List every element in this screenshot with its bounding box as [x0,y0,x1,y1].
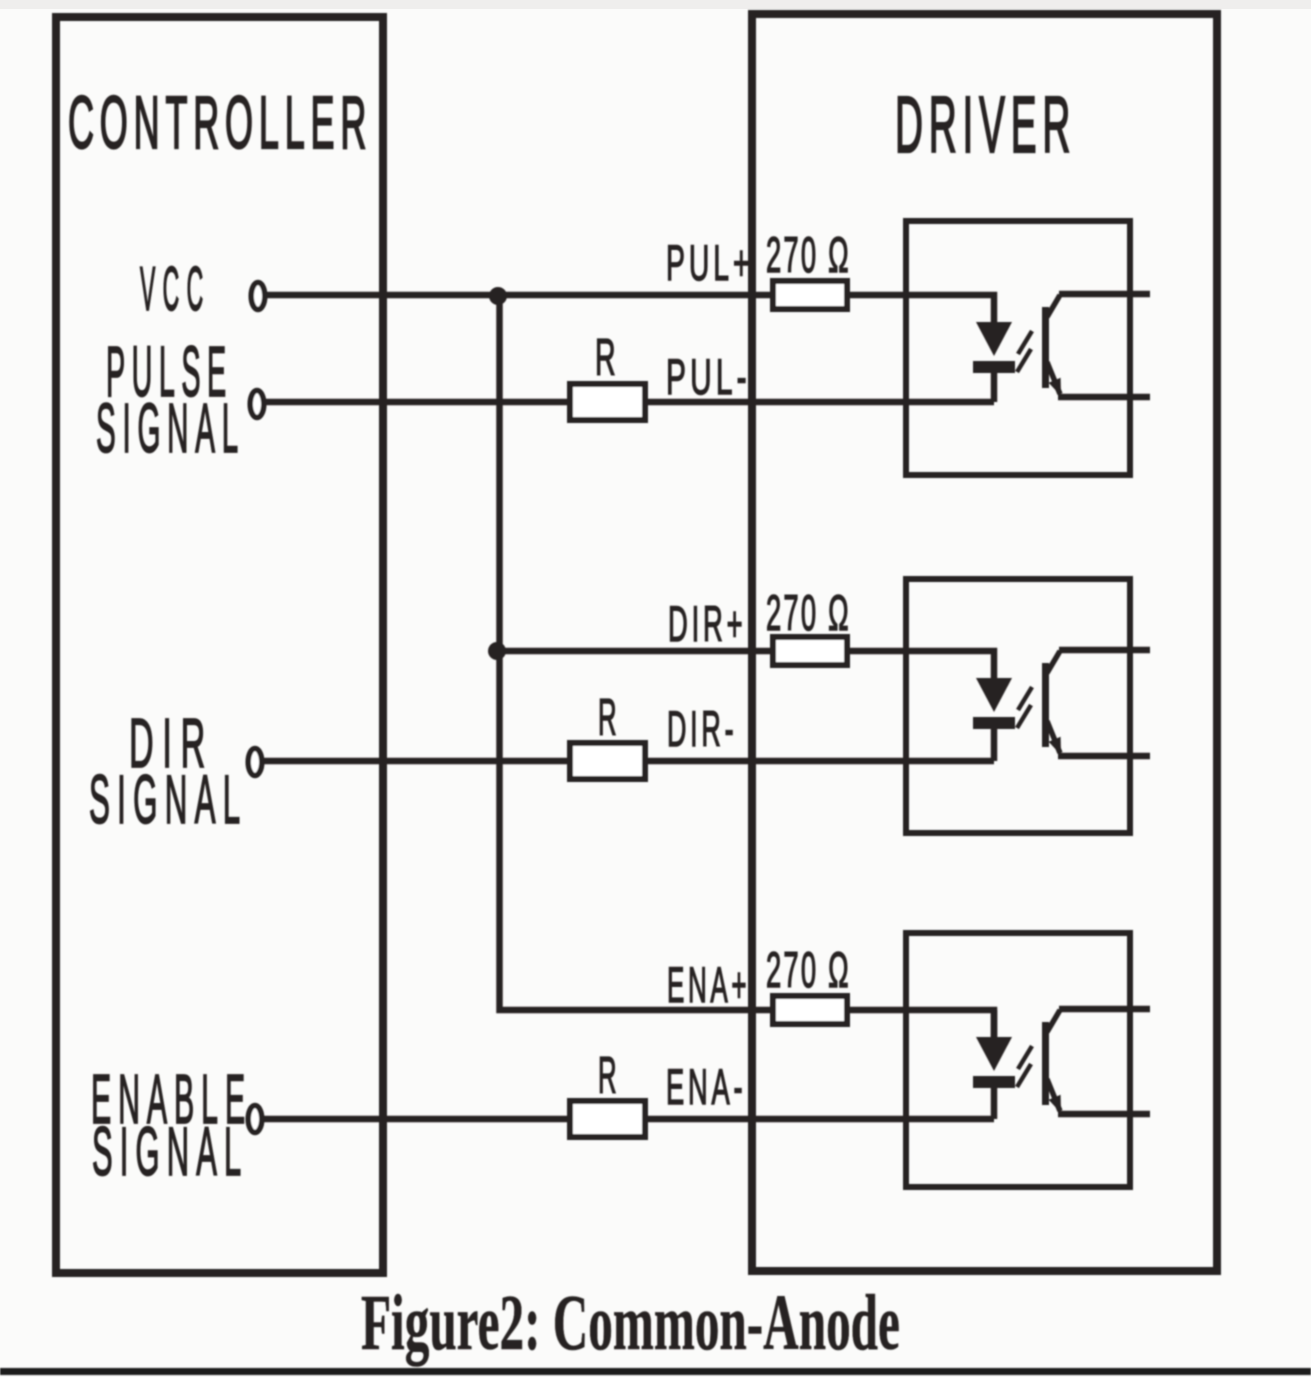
optocoupler U3 phototransistor [1042,1010,1061,1113]
svg-text:R: R [595,328,616,386]
optocoupler U1 light arrows [1017,331,1032,372]
label CONTROLLER [68,82,372,165]
pin label ENA+ [667,958,750,1013]
resistor 270ohm DIR+ [773,637,847,665]
pin label DIR- [667,701,737,757]
wire DIR- line [264,758,994,765]
label PULSE [106,333,233,412]
svg-text:Figure2: Common-Anode: Figure2: Common-Anode [361,1279,900,1367]
VCC terminal [251,283,265,310]
optocoupler U2 phototransistor [1042,651,1061,755]
wire U1 emitter stub [1058,394,1150,401]
svg-text:270 Ω: 270 Ω [766,227,851,283]
svg-text:DIR-: DIR- [667,701,737,757]
label SIGNAL (pulse) [96,389,245,467]
svg-text:VCC: VCC [140,254,211,323]
value label 270ohm PUL [766,227,851,283]
svg-text:CONTROLLER: CONTROLLER [68,82,372,165]
ENABLE SIGNAL terminal [248,1106,262,1133]
pin label PUL+ [666,234,754,291]
wire VCC to PUL+ LED anode [267,295,994,322]
svg-text:R: R [598,688,617,746]
wire ENA- line [264,1116,994,1123]
wire U3 emitter stub [1058,1111,1150,1118]
wire VCC common-anode trunk [500,296,995,1037]
label SIGNAL (dir) [89,761,247,838]
svg-text:270 Ω: 270 Ω [766,942,851,998]
svg-text:SIGNAL: SIGNAL [92,1114,248,1190]
label VCC [140,254,211,323]
svg-text:ENA-: ENA- [666,1059,746,1115]
caption Figure2: Common-Anode [361,1279,900,1367]
wire U2 emitter stub [1058,753,1150,760]
pin label DIR+ [668,596,746,652]
svg-text:PUL-: PUL- [666,349,751,405]
label DIR [129,703,214,782]
label DRIVER [895,81,1076,170]
resistor R ENA- [570,1101,645,1137]
svg-text:SIGNAL: SIGNAL [89,761,247,838]
bottom page rule [0,1368,1311,1375]
svg-text:270 Ω: 270 Ω [766,585,851,641]
DIR SIGNAL terminal [248,749,262,776]
svg-text:PUL+: PUL+ [666,234,754,291]
svg-text:R: R [598,1046,617,1104]
value label R DIR [598,688,617,746]
wire PUL- line [266,399,994,406]
resistor R DIR- [570,743,645,779]
value label 270ohm ENA [766,942,851,998]
value label R ENA [598,1046,617,1104]
label ENABLE [91,1061,252,1139]
controller box [56,17,383,1273]
node DIR+ junction [488,642,506,660]
PULSE SIGNAL terminal [250,391,264,418]
optocoupler U3 box [906,933,1130,1187]
wire DIR+ from junction to LED anode [497,651,994,678]
driver box [752,14,1217,1271]
node VCC junction [489,287,507,305]
value label 270ohm DIR [766,585,851,641]
optocoupler U2 LED [973,678,1015,761]
wire ENA+ LED anode drop [991,1010,998,1037]
resistor R PUL- [570,384,645,420]
optocoupler U2 box [906,579,1130,833]
value label R PUL [595,328,616,386]
pin label ENA- [666,1059,746,1115]
optocoupler U3 LED [973,1037,1015,1119]
svg-text:SIGNAL: SIGNAL [96,389,245,467]
svg-text:DIR+: DIR+ [668,596,746,652]
svg-text:DRIVER: DRIVER [895,81,1076,170]
resistor 270ohm ENA+ [773,996,847,1024]
optocoupler U2 light arrows [1017,687,1032,728]
wire U3 collector stub [1059,1006,1150,1013]
optocoupler U1 phototransistor [1042,295,1061,396]
svg-text:ENA+: ENA+ [667,958,750,1013]
pin label PUL- [666,349,751,405]
resistor 270ohm PUL+ [773,281,847,309]
optocoupler U3 light arrows [1017,1046,1032,1087]
wire U1 collector stub [1059,291,1150,298]
optocoupler U1 LED [973,322,1015,402]
wire U2 collector stub [1059,647,1150,654]
label SIGNAL (enable) [92,1114,248,1190]
optocoupler U1 box [906,221,1130,475]
